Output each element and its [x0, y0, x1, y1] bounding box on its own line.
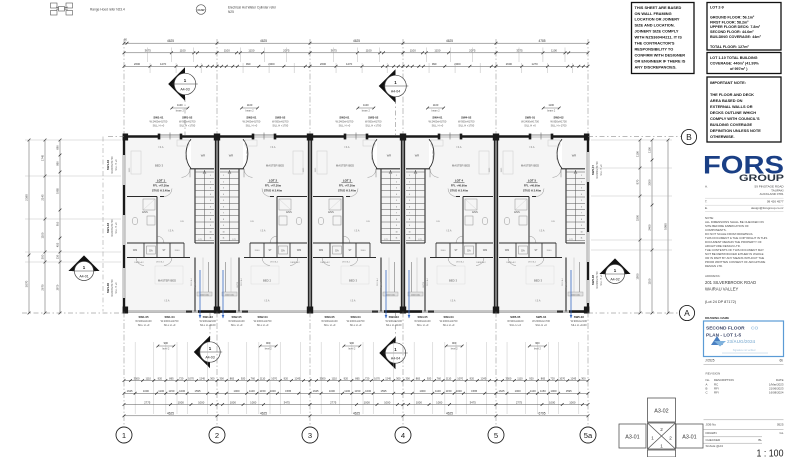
section marker A4-02 (right) — [599, 258, 630, 274]
svg-text:1100: 1100 — [41, 232, 45, 238]
unit 5 bathroom strip — [499, 242, 556, 244]
svg-text:A4-02: A4-02 — [610, 277, 619, 281]
svg-text:1100: 1100 — [648, 147, 652, 153]
svg-text:920: 920 — [529, 376, 534, 380]
unit 4 bathroom strip — [436, 242, 493, 244]
svg-text:60774: 60774 — [566, 282, 568, 287]
svg-text:1110: 1110 — [517, 376, 523, 380]
unit 3 WR closet curved wall — [372, 139, 377, 168]
svg-text:DRAWN: DRAWN — [706, 431, 717, 435]
svg-text:1150: 1150 — [540, 389, 546, 393]
svg-text:SECOND FLOOR: 44.6m²: SECOND FLOOR: 44.6m² — [710, 30, 754, 34]
svg-text:5080: 5080 — [664, 223, 668, 230]
left vertical dimension row 1 — [28, 140, 30, 313]
svg-text:l.S.A: l.S.A — [354, 230, 359, 233]
svg-text:865: 865 — [416, 376, 421, 380]
svg-text:SILL H +0: SILL H +0 — [115, 222, 118, 234]
bottom dimension row 2 — [124, 392, 217, 394]
svg-text:SW4-01: SW4-01 — [432, 116, 443, 120]
svg-text:JOINERY SIZE COMPLY: JOINERY SIZE COMPLY — [635, 29, 679, 34]
outer wall left — [123, 136, 125, 156]
svg-text:SW3-04: SW3-04 — [351, 315, 362, 319]
svg-text:WM: WM — [297, 249, 301, 252]
svg-text:DESCRIPTION: DESCRIPTION — [714, 378, 734, 382]
svg-text:SILL H +1700: SILL H +1700 — [458, 123, 474, 127]
svg-text:BED 2: BED 2 — [263, 279, 272, 283]
svg-text:1 : 100: 1 : 100 — [757, 448, 784, 457]
svg-text:level 2: level 2 — [162, 348, 170, 351]
svg-text:1100: 1100 — [224, 49, 230, 53]
svg-text:DESK A.2: DESK A.2 — [134, 261, 144, 264]
svg-text:W:900xH1100: W:900xH1100 — [507, 319, 524, 323]
svg-text:OTHERWISE.: OTHERWISE. — [710, 134, 735, 139]
svg-text:W:2260xH1700: W:2260xH1700 — [596, 271, 599, 289]
unit 2 services void — [225, 262, 227, 292]
unit 2 front wall — [217, 135, 253, 137]
svg-text:A3-01: A3-01 — [682, 435, 696, 441]
svg-text:16/08/2024: 16/08/2024 — [769, 391, 784, 395]
svg-text:1000: 1000 — [420, 389, 426, 393]
svg-text:8: 8 — [396, 219, 397, 221]
svg-text:8: 8 — [210, 219, 211, 221]
svg-text:2000: 2000 — [268, 62, 275, 66]
unit 2 lower bedroom — [238, 258, 240, 312]
svg-text:BED 3: BED 3 — [449, 279, 458, 283]
svg-text:0525: 0525 — [777, 423, 784, 427]
svg-text:SW1-05: SW1-05 — [138, 315, 149, 319]
unit 3 ensuite — [313, 196, 343, 198]
unit 1 rear wall piers — [198, 310, 214, 313]
svg-text:920: 920 — [284, 376, 289, 380]
svg-text:level 2: level 2 — [348, 348, 356, 351]
svg-text:990: 990 — [432, 62, 437, 66]
svg-text:4625: 4625 — [260, 39, 267, 43]
svg-text:beam 2: beam 2 — [432, 110, 441, 113]
svg-text:1: 1 — [223, 175, 224, 177]
svg-text:SDB+H90: SDB+H90 — [557, 150, 559, 160]
svg-text:1102 D10L: 1102 D10L — [411, 294, 420, 296]
svg-text:865: 865 — [169, 376, 174, 380]
unit 5 blue service mark — [570, 270, 572, 318]
unit 2 WR closet curved wall — [243, 139, 248, 168]
svg-text:3475: 3475 — [284, 400, 291, 404]
svg-text:860: 860 — [56, 161, 60, 166]
level mini dims below labels — [158, 345, 174, 347]
svg-text:6: 6 — [581, 206, 582, 208]
party walls — [216, 136, 218, 313]
svg-text:2: 2 — [223, 181, 224, 183]
outer wall corner nibs — [123, 134, 129, 141]
svg-text:130: 130 — [56, 254, 60, 259]
svg-text:3610 A.1: 3610 A.1 — [240, 277, 243, 286]
svg-text:W:2000xH1700: W:2000xH1700 — [532, 319, 550, 323]
svg-text:1000: 1000 — [198, 400, 205, 404]
svg-text:1625: 1625 — [127, 389, 133, 393]
svg-text:No.: No. — [706, 378, 711, 382]
svg-text:SILL H +0: SILL H +0 — [324, 323, 336, 327]
svg-text:1270: 1270 — [346, 62, 353, 66]
svg-text:6795: 6795 — [538, 412, 545, 416]
svg-text:FFL +47.30m: FFL +47.30m — [339, 184, 356, 188]
svg-text:920: 920 — [470, 376, 475, 380]
svg-text:17R: 17R — [569, 239, 573, 241]
bottom dimension row 4 (overall) — [124, 415, 588, 417]
svg-text:W:2400xH1700: W:2400xH1700 — [335, 120, 353, 124]
svg-text:3300: 3300 — [648, 179, 652, 186]
svg-text:11: 11 — [210, 238, 212, 240]
svg-text:A4-01: A4-01 — [79, 274, 88, 278]
svg-text:900: 900 — [350, 341, 355, 345]
svg-text:WR: WR — [415, 154, 420, 158]
unit 3 top window — [345, 134, 367, 136]
svg-text:SW1-06: SW1-06 — [106, 283, 110, 294]
svg-text:1625: 1625 — [313, 389, 319, 393]
section marker A4-03 (top) — [168, 67, 185, 101]
svg-text:2600: 2600 — [134, 62, 141, 66]
grid bubble 4 — [395, 427, 411, 443]
svg-text:DR/4 A.2: DR/4 A.2 — [528, 261, 537, 264]
svg-text:1150: 1150 — [446, 389, 452, 393]
unit 1 top window — [159, 134, 181, 136]
svg-text:3500: 3500 — [134, 376, 140, 380]
svg-text:201 SILVERBROOK ROAD: 201 SILVERBROOK ROAD — [705, 280, 756, 285]
svg-text:3: 3 — [210, 188, 211, 190]
grid verticals below plan — [123, 312, 125, 427]
svg-text:1100: 1100 — [648, 278, 652, 284]
svg-text:4625: 4625 — [353, 39, 360, 43]
svg-text:SW3-02: SW3-02 — [368, 116, 379, 120]
svg-text:SILL H +1700: SILL H +1700 — [272, 123, 288, 127]
svg-text:BUILDING COVERAGE: BUILDING COVERAGE — [710, 122, 753, 127]
svg-text:Electrical Hot Water Cylinder: Electrical Hot Water Cylinder refer — [228, 6, 277, 10]
svg-text:720: 720 — [365, 376, 370, 380]
svg-text:SW5-01: SW5-01 — [525, 116, 536, 120]
svg-text:1000: 1000 — [436, 400, 443, 404]
svg-text:beam 2: beam 2 — [547, 110, 556, 113]
svg-text:DA: DA — [521, 250, 525, 253]
svg-text:ON WALL FRAMING: ON WALL FRAMING — [635, 11, 672, 16]
svg-text:LOT 4: LOT 4 — [455, 179, 464, 183]
svg-text:1070: 1070 — [559, 376, 565, 380]
svg-text:SW1-03: SW1-03 — [106, 223, 110, 234]
unit 2 bathroom strip — [250, 242, 307, 244]
svg-text:A.: A. — [705, 185, 708, 189]
svg-text:1: 1 — [122, 431, 126, 440]
building floor tint — [124, 137, 588, 312]
svg-text:1000: 1000 — [179, 389, 185, 393]
svg-text:7: 7 — [223, 213, 224, 215]
svg-text:W:950xH1700: W:950xH1700 — [179, 120, 196, 124]
unit 4 lower bedroom — [424, 258, 426, 312]
svg-text:SILL H +1100: SILL H +1100 — [386, 323, 402, 327]
svg-text:ENS: ENS — [142, 210, 148, 214]
section marker A4-04 (top) — [379, 69, 396, 103]
svg-text:l.S.A: l.S.A — [450, 300, 455, 303]
legend: DHW cylinder symbol — [196, 5, 206, 15]
svg-text:9: 9 — [210, 225, 211, 227]
svg-text:2075: 2075 — [469, 49, 476, 53]
svg-text:TOTAL FLOOR: 127m²: TOTAL FLOOR: 127m² — [710, 45, 749, 49]
svg-text:17R: 17R — [198, 239, 202, 241]
svg-text:SILL H +0: SILL H +0 — [115, 282, 118, 294]
svg-text:IMPORTANT NOTE:: IMPORTANT NOTE: — [710, 80, 746, 85]
svg-text:SILL H +0: SILL H +0 — [432, 123, 444, 127]
svg-text:DN: DN — [366, 221, 370, 223]
svg-text:2: 2 — [409, 181, 410, 183]
svg-text:1100: 1100 — [435, 389, 441, 393]
unit 3 lower bedroom — [380, 258, 382, 312]
svg-text:920: 920 — [241, 376, 246, 380]
svg-text:1000: 1000 — [551, 389, 557, 393]
svg-text:A4-03: A4-03 — [205, 355, 214, 359]
svg-text:720: 720 — [179, 376, 184, 380]
unit 2 bottom window (full-width glazing) — [217, 310, 310, 312]
svg-text:300: 300 — [405, 376, 410, 380]
svg-text:2145: 2145 — [41, 194, 45, 201]
svg-text:17R: 17R — [232, 239, 236, 241]
svg-text:2775: 2775 — [516, 400, 523, 404]
svg-text:17R: 17R — [384, 239, 388, 241]
svg-text:W:950xH1700: W:950xH1700 — [550, 120, 567, 124]
section marker A4-04 (bottom) — [379, 337, 395, 369]
grid line verticals above plan (dash-dot) — [123, 39, 125, 137]
svg-text:SILL H +0: SILL H +0 — [153, 123, 165, 127]
svg-text:SW2-01: SW2-01 — [246, 116, 257, 120]
svg-text:6: 6 — [409, 206, 410, 208]
svg-text:SILL H +0: SILL H +0 — [600, 164, 603, 176]
svg-text:3: 3 — [223, 188, 224, 190]
svg-text:1: 1 — [651, 436, 654, 441]
svg-text:1: 1 — [581, 175, 582, 177]
svg-text:4: 4 — [581, 194, 582, 196]
svg-text:3375: 3375 — [516, 49, 523, 53]
unit 5 WR closet curved wall — [557, 139, 562, 168]
svg-text:ENS: ENS — [286, 210, 292, 214]
svg-text:11: 11 — [396, 238, 398, 240]
svg-text:WM: WM — [505, 249, 509, 252]
svg-text:W:2000xH1700: W:2000xH1700 — [347, 319, 365, 323]
svg-text:1070: 1070 — [188, 376, 194, 380]
right vertical dimension rows — [639, 140, 641, 313]
svg-text:900: 900 — [164, 341, 169, 345]
svg-text:4: 4 — [409, 194, 410, 196]
svg-text:SILL H +0: SILL H +0 — [535, 323, 547, 327]
unit 1 ensuite — [127, 196, 157, 198]
svg-text:1245: 1245 — [385, 376, 391, 380]
svg-text:SILL H +0: SILL H +0 — [443, 323, 455, 327]
unit 2 rear wall piers — [220, 310, 236, 313]
svg-text:LOT 1-10 TOTAL BUILDING: LOT 1-10 TOTAL BUILDING — [710, 56, 758, 60]
unit 4 blue service mark — [408, 270, 410, 318]
svg-text:9: 9 — [581, 225, 582, 227]
svg-text:STUD H 2.40m: STUD H 2.40m — [264, 188, 283, 192]
svg-text:SW1-01: SW1-01 — [153, 116, 164, 120]
svg-text:300: 300 — [210, 376, 215, 380]
svg-text:1270: 1270 — [532, 62, 539, 66]
svg-text:W:2005xH1700: W:2005xH1700 — [111, 279, 114, 297]
svg-text:1110: 1110 — [145, 376, 151, 380]
svg-text:5: 5 — [210, 200, 211, 202]
bottom dimension row 1 — [124, 380, 217, 382]
svg-text:300: 300 — [396, 376, 401, 380]
svg-text:1100: 1100 — [363, 103, 369, 107]
svg-text:SILL H +1700: SILL H +1700 — [179, 123, 195, 127]
svg-text:1102 D10L: 1102 D10L — [225, 294, 234, 296]
svg-text:1100: 1100 — [548, 103, 554, 107]
svg-text:9: 9 — [223, 225, 224, 227]
svg-text:3500: 3500 — [506, 376, 512, 380]
left vertical dimension row 3 — [59, 140, 61, 313]
svg-text:1100: 1100 — [636, 151, 640, 157]
note box: lot areas — [707, 3, 781, 51]
svg-text:1245: 1245 — [295, 376, 301, 380]
svg-text:5: 5 — [581, 200, 582, 202]
svg-text:AUCKLAND 0781: AUCKLAND 0781 — [760, 192, 784, 196]
svg-text:1070: 1070 — [457, 376, 463, 380]
svg-text:1000: 1000 — [456, 389, 462, 393]
unit 1 services void — [208, 262, 210, 292]
svg-text:BED 3: BED 3 — [155, 164, 164, 168]
svg-text:LOT 5: LOT 5 — [528, 179, 537, 183]
svg-text:4625: 4625 — [260, 412, 267, 416]
svg-text:DN: DN — [180, 221, 184, 223]
svg-text:SW1-03: SW1-03 — [203, 315, 214, 319]
svg-text:6b: 6b — [779, 359, 783, 363]
meta rows — [704, 419, 784, 421]
svg-text:1245: 1245 — [199, 376, 205, 380]
svg-text:6: 6 — [210, 206, 211, 208]
svg-text:REVISION: REVISION — [706, 372, 721, 376]
svg-text:720: 720 — [550, 376, 555, 380]
svg-text:10: 10 — [395, 231, 397, 233]
unit 4 rear wall piers — [406, 310, 422, 313]
svg-text:MASTER BED: MASTER BED — [452, 164, 470, 168]
svg-text:design@forsgroup.co.nz: design@forsgroup.co.nz — [751, 206, 784, 210]
svg-text:1595: 1595 — [566, 389, 572, 393]
svg-text:A3-01: A3-01 — [625, 435, 639, 441]
svg-text:Signature not verified: Signature not verified — [733, 349, 756, 352]
svg-text:10: 10 — [209, 231, 211, 233]
svg-text:DR/4 A.2: DR/4 A.2 — [342, 261, 351, 264]
svg-text:ST: ST — [268, 249, 272, 252]
svg-text:W:2260xH1700: W:2260xH1700 — [596, 161, 599, 179]
svg-text:DA: DA — [281, 250, 285, 253]
svg-text:4: 4 — [210, 194, 211, 196]
svg-text:FFL +46.90m: FFL +46.90m — [524, 184, 541, 188]
svg-text:SILL H +0: SILL H +0 — [524, 123, 536, 127]
svg-text:1102 D10L: 1102 D10L — [386, 294, 395, 296]
svg-text:DHW: DHW — [198, 8, 205, 12]
unit 3 services void — [394, 262, 396, 292]
unit 1 blue service mark — [199, 270, 201, 318]
svg-text:W:2000xH1700: W:2000xH1700 — [161, 319, 179, 323]
svg-text:1100: 1100 — [249, 389, 255, 393]
svg-text:W:950xH1700: W:950xH1700 — [365, 120, 382, 124]
svg-text:l.S.A: l.S.A — [168, 230, 173, 233]
unit 3 front wall — [310, 135, 345, 137]
svg-text:60774: 60774 — [237, 282, 239, 287]
left vertical dimension row 2 — [44, 140, 46, 313]
svg-text:OR ENGINEER IF THERE IS: OR ENGINEER IF THERE IS — [635, 58, 686, 63]
unit 4 front wall — [403, 135, 439, 137]
unit 4 top window — [439, 134, 461, 136]
svg-text:2400: 2400 — [648, 224, 652, 231]
svg-text:W:2400xH1700: W:2400xH1700 — [521, 120, 539, 124]
svg-text:LOCATION OR JOINERY: LOCATION OR JOINERY — [635, 17, 680, 22]
svg-text:W:2005xH1700: W:2005xH1700 — [111, 219, 114, 237]
svg-text:5: 5 — [396, 200, 397, 202]
svg-text:ST: ST — [162, 249, 166, 252]
svg-text:3: 3 — [409, 188, 410, 190]
svg-text:SILL H +0: SILL H +0 — [231, 323, 243, 327]
svg-text:990: 990 — [246, 62, 251, 66]
svg-text:DESIGN LTD.: DESIGN LTD. — [705, 264, 723, 268]
svg-text:1000: 1000 — [178, 400, 185, 404]
svg-text:2040: 2040 — [441, 250, 447, 252]
svg-text:beam 2: beam 2 — [246, 110, 255, 113]
svg-text:SW1-02: SW1-02 — [182, 116, 193, 120]
svg-text:SW3-05: SW3-05 — [324, 315, 335, 319]
svg-text:SILL H +1700: SILL H +1700 — [365, 123, 381, 127]
svg-text:SIZE AND LOCATION.: SIZE AND LOCATION. — [635, 23, 675, 28]
svg-text:3: 3 — [308, 431, 312, 440]
svg-text:W:900xH2100: W:900xH2100 — [386, 319, 403, 323]
svg-text:3610 A.1: 3610 A.1 — [190, 277, 193, 286]
unit 1 bottom window (full-width glazing) — [124, 310, 217, 312]
svg-text:A4-04: A4-04 — [391, 89, 400, 93]
svg-text:DRAWING NAME: DRAWING NAME — [705, 316, 729, 320]
svg-text:4625: 4625 — [446, 412, 453, 416]
unit 1 front wall — [124, 135, 159, 137]
svg-text:2: 2 — [581, 181, 582, 183]
svg-text:970: 970 — [636, 179, 640, 184]
grid bubble B — [681, 129, 696, 144]
svg-text:SW4-02: SW4-02 — [461, 116, 472, 120]
svg-text:MASTER BED: MASTER BED — [158, 279, 176, 283]
top dimension row 3 (detail dims) — [124, 65, 217, 67]
svg-text:STUD H 2.40m: STUD H 2.40m — [152, 188, 171, 192]
svg-text:DR/4 A.2: DR/4 A.2 — [156, 261, 165, 264]
top dimension row 1 (overall 4625 spans) — [124, 42, 588, 44]
svg-text:17R: 17R — [418, 239, 422, 241]
svg-text:N25: N25 — [228, 10, 234, 14]
svg-text:SW1-04: SW1-04 — [165, 315, 176, 319]
left dashed grid line — [102, 137, 104, 312]
unit 2 ensuite — [277, 196, 307, 198]
unit 3 blue service mark — [385, 270, 387, 318]
svg-text:3500: 3500 — [320, 376, 326, 380]
svg-text:SW5-07: SW5-07 — [591, 165, 595, 176]
svg-text:920: 920 — [427, 376, 432, 380]
svg-text:MASTER BED: MASTER BED — [521, 164, 539, 168]
svg-text:1150: 1150 — [260, 389, 266, 393]
svg-text:1102 D10L: 1102 D10L — [200, 294, 209, 296]
svg-text:SILL H +0: SILL H +0 — [115, 159, 118, 171]
svg-text:9: 9 — [409, 225, 410, 227]
svg-text:l.S.A: l.S.A — [535, 300, 540, 303]
svg-text:760: 760 — [437, 376, 442, 380]
svg-text:MASTER BED: MASTER BED — [266, 164, 284, 168]
svg-text:W:900xH1100: W:900xH1100 — [228, 319, 245, 323]
svg-text:2: 2 — [396, 181, 397, 183]
svg-text:60774: 60774 — [423, 282, 425, 287]
svg-text:1595: 1595 — [194, 389, 200, 393]
svg-text:WAIRAU VALLEY: WAIRAU VALLEY — [705, 287, 738, 292]
svg-text:LOT 3: LOT 3 — [343, 179, 352, 183]
svg-text:LOT 2: LOT 2 — [269, 179, 278, 183]
svg-text:4: 4 — [223, 194, 224, 196]
svg-text:STUD H 2.40m: STUD H 2.40m — [338, 188, 357, 192]
